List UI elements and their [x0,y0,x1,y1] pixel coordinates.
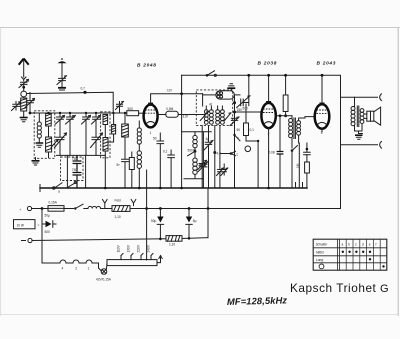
V3 top cap to rail [321,75,323,102]
rail switch a [53,183,62,194]
junction dot with label 4,7 [213,126,221,188]
antenna socket circle [21,88,27,97]
coil L1 on antenna lead [21,97,27,111]
svg-text:750: 750 [72,168,78,172]
antenna A1 [19,59,29,78]
mains switch [64,204,88,210]
svg-text:Lang: Lang [316,258,323,262]
capacitor block mid [168,150,175,188]
antenna break connector [22,77,27,81]
svg-text:4т: 4т [209,103,213,107]
trimmer on earth lead [57,76,67,87]
output transformer T2 [351,97,364,131]
twin trimmer pair [217,126,228,188]
earth umbrella symbol [58,58,67,75]
svg-text:1M: 1M [296,163,300,168]
grid wire to V2 [235,111,262,113]
T1 secondary bottom drop [298,135,301,188]
svg-text:500: 500 [243,107,249,111]
svg-text:e: e [369,242,371,246]
svg-text:50: 50 [153,137,157,141]
padder trimmer Cc [82,113,91,126]
svg-text:Feld: Feld [115,199,121,203]
svg-text:0,7: 0,7 [81,87,86,91]
dial lamp circle [245,146,251,152]
dropper branch wire [41,209,43,264]
trimmer feed from rail [248,75,250,99]
wire antenna to tuner corner [27,92,114,113]
svg-text:130V: 130V [127,244,131,252]
comb stubs near rail end [296,183,303,189]
small trimmer above L7 [116,102,124,114]
junction dot [22,86,25,89]
trimmer arrow over secondary [225,113,232,121]
dropper riser [146,209,148,261]
svg-text:50µ: 50µ [45,214,51,218]
svg-text:Mittel: Mittel [316,251,324,255]
tuning gang section 2 [91,126,103,155]
resistor R3 (diode load) [244,104,249,141]
B+ distribution line [130,208,341,210]
collector wire under gang [57,154,106,156]
V2 anode wire [276,115,292,117]
capacitor on cathode line [153,133,164,188]
anode riser wire [181,75,183,188]
resistor R1 vertical [129,152,134,188]
svg-text:8µ: 8µ [193,219,197,223]
coupling capacitor 0,08 [269,151,284,155]
rail switch b [67,182,77,189]
oscillator shield box (dashed) [101,112,110,158]
heater feed riser [146,170,148,209]
osc coil L6 lower (hatched) [103,125,108,189]
chassis ground rail [40,185,307,192]
ballast lamp [96,263,112,282]
trimmer capacitor C2 right of L1 [25,93,35,114]
hum choke on return line [166,236,182,247]
RF choke bumps [88,206,101,208]
svg-text:50µ: 50µ [151,219,157,223]
svg-text:2: 2 [75,267,77,271]
AVC trimmer below grid wire [230,112,239,128]
dashed box with fixed caps [61,157,84,181]
svg-text:240V: 240V [147,244,151,252]
coil L8 (hatched, mixer cathode) [122,113,129,159]
tuning gang section 1 [55,126,67,155]
var cap symbol det1 [204,126,213,188]
antenna primary coil L2 (loops) [37,113,41,143]
T1 secondary top to V3 grid [299,117,315,121]
coupling coil L7 (hatched small) [109,113,116,142]
svg-text:0,15A: 0,15A [49,201,58,205]
svg-text:500: 500 [45,230,51,234]
terminal clip upper [380,94,382,101]
junction dot on antenna wire [83,91,86,94]
svg-text:B 2038: B 2038 [258,61,278,67]
junction dot [233,111,236,114]
switch on T1 primary return [291,146,298,189]
earth bar [58,88,66,90]
capacitor under L8 [117,159,129,188]
svg-text:10т: 10т [167,89,173,93]
svg-text:f: f [376,242,377,246]
svg-text:3,5т: 3,5т [183,115,189,119]
svg-text:220V: 220V [137,244,141,252]
secondary coil L4 lower (hatched) [46,126,52,158]
IF transformer shield box (dashed) [196,90,232,126]
svg-text:B 2048: B 2048 [137,63,157,69]
trimmer arrow over primary [200,112,208,121]
junction dots on bus [59,112,61,114]
anode load resistor 0,5M [158,107,205,117]
osc coil L5 upper (hatched) [103,115,108,125]
ground under antenna coil [20,111,28,122]
padder trimmer Ca [56,113,65,126]
svg-text:1,10: 1,10 [115,215,121,219]
svg-text:5000: 5000 [188,149,195,153]
trimmer Cc drop [85,126,87,155]
junction dots on B+ [41,207,44,210]
svg-text:500: 500 [128,107,134,111]
svg-text:B 2043: B 2043 [317,61,337,67]
svg-text:110V: 110V [117,244,121,252]
page left edge [0,28,2,317]
junction on anode riser [180,92,183,95]
svg-text:=: = [38,224,40,228]
tube V2 B2038 envelope [261,101,275,128]
grid leak capacitor [304,143,311,155]
ground under T2 [355,131,363,139]
trimmer arrow left of L1 [12,102,21,111]
plus terminal [20,206,49,212]
IF primary coil pair [204,106,213,124]
svg-text:4,7: 4,7 [217,152,222,156]
wave switch column [233,120,240,188]
shield box (antenna coils, dashed) [34,111,55,159]
svg-text:1: 1 [88,267,90,271]
pilot lamp chain [42,260,99,271]
V1 cathode coil (loops lower) [137,144,141,188]
junction dots on rail [104,187,107,190]
trimmer right of IF box [234,95,250,111]
svg-text:1: 1 [150,131,152,135]
IF secondary coil pair [216,106,225,124]
ground under L2 [36,143,44,147]
coupling drop wire [279,116,281,188]
fork symbol right of Feld [131,200,136,206]
capacitor 750 lower [72,168,82,188]
padder trimmer Cb [66,113,76,126]
speaker feed line lower [341,144,378,146]
page bottom edge [0,314,398,316]
terminal clip lower [380,141,382,148]
svg-text:10 W: 10 W [17,223,24,227]
riser dots [233,101,236,104]
padder trimmer Cd [92,113,101,126]
padding capacitor with arrow [198,132,208,179]
svg-text:d: d [362,242,364,246]
oscillator padding coil pair [182,132,212,188]
filter cap 2 (electrolytic arrow down) [186,209,197,239]
svg-text:150: 150 [237,108,243,112]
grid bus wire [30,112,127,114]
V2 cathode drop [268,128,270,188]
top supply rail [182,75,341,208]
page right edge [397,28,399,317]
junction node at bus start [29,112,32,115]
svg-text:0,1: 0,1 [250,128,255,132]
top ground symbol [227,84,235,90]
svg-text:+: + [20,208,22,212]
return line [32,239,166,241]
capacitor 750 upper [72,155,82,171]
svg-text:1,10: 1,10 [169,243,175,247]
minus terminal [22,238,33,242]
svg-text:750: 750 [72,157,78,161]
svg-text:a: a [342,242,344,246]
svg-text:0,08: 0,08 [269,151,275,155]
svg-text:5т: 5т [117,163,121,167]
switch table [313,239,387,270]
trimmer on left drop [198,126,207,188]
vertical to rail right [85,155,87,188]
switch on top rail [206,71,217,77]
voltage dropper resistor [107,244,162,265]
speaker feed line upper [341,96,378,98]
svg-text:50: 50 [237,128,241,132]
svg-text:Schalter: Schalter [316,243,329,247]
V3 cathode stub [321,129,323,132]
loudspeaker [364,107,381,125]
negative riser [207,188,209,238]
aerial fork symbol [103,200,108,209]
ground at shield box bottom [32,158,40,166]
tube V1 B2048 envelope [144,103,158,128]
V1 top cap wire [151,94,203,103]
svg-text:a: a [58,190,60,194]
fuse 0,15A [48,201,64,212]
svg-text:42V/0,15A: 42V/0,15A [96,278,112,282]
vertical to rail left [66,155,68,188]
IF top coupling coil (racetrack) [203,91,235,106]
svg-text:MF=128,5kHz: MF=128,5kHz [227,294,288,307]
trimmer arrow on L4 [51,140,58,148]
svg-text:0,1: 0,1 [163,150,168,154]
return line junction dots [159,238,162,241]
switch contact C2 [220,151,239,156]
electrolytic cap symbol (arrow) [42,221,56,234]
svg-text:b: b [348,242,350,246]
grid leak resistor [296,155,309,188]
svg-text:4: 4 [62,267,64,271]
page top edge [0,27,400,29]
secondary coil L3 upper (hatched) [46,114,52,127]
AVC branch wire [246,140,259,188]
V2 top cap to rail [268,75,270,101]
AF transformer T1 [289,116,301,148]
10W box [14,220,40,229]
grid stopper resistor 500 [127,107,144,116]
V1 cathode coil (loops upper) [137,121,141,144]
anode feed resistor from rail [283,74,288,116]
field coil Feld [112,199,130,219]
trimmer capacitor C1 (antenna series) [19,80,29,88]
svg-text:0,5M: 0,5M [166,107,173,111]
tube V3 B2043 envelope [315,103,330,129]
svg-text:Kapsch Triohet G: Kapsch Triohet G [290,281,389,295]
filter cap 1 (electrolytic arrow down) [151,209,164,240]
